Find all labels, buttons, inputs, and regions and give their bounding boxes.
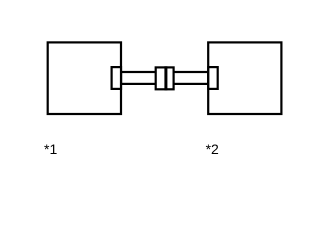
ECU box 1 (left): [48, 42, 121, 114]
svg-text:*1: *1: [44, 141, 57, 157]
svg-text:*2: *2: [206, 141, 219, 157]
connector tab on box 1: [112, 67, 121, 89]
connector tab on box 2: [208, 67, 217, 89]
ECU box 2 (right): [208, 42, 281, 114]
in-line connector mating divider: [164, 66, 167, 90]
wire harness between boxes: [121, 72, 208, 84]
in-line connector body (middle): [156, 67, 174, 89]
